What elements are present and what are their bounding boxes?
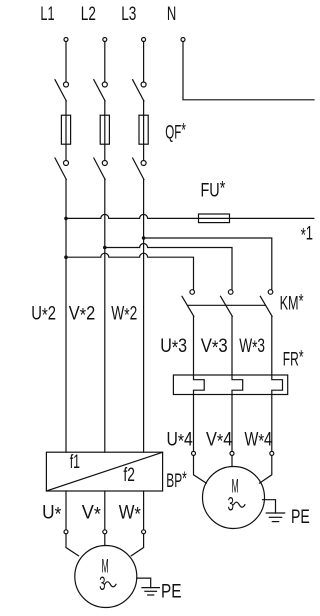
junction dot bus4 / L1 xyxy=(64,255,68,259)
motor M2 3~ mark xyxy=(228,494,245,516)
svg-text:3: 3 xyxy=(228,494,234,516)
terminal L2 xyxy=(103,38,107,42)
svg-text:U*: U* xyxy=(42,501,62,525)
breaker QF* pole 3 upper contact xyxy=(133,80,147,116)
svg-text:L3: L3 xyxy=(121,3,136,25)
wire box BP to terminal W* xyxy=(143,491,145,530)
wire V*2 feeder (L2 phase down to box BP) xyxy=(104,180,106,453)
wire terminal U*4 to motor M2 xyxy=(194,456,207,484)
svg-text:PE: PE xyxy=(161,580,182,602)
svg-text:V*: V* xyxy=(82,501,102,525)
wire box BP to terminal V* xyxy=(104,491,106,530)
svg-text:N: N xyxy=(167,3,176,25)
svg-text:U*4: U*4 xyxy=(167,429,193,453)
terminal V*4 xyxy=(230,451,234,455)
fuse element pole 3 xyxy=(139,115,148,144)
svg-text:f1: f1 xyxy=(70,451,80,473)
svg-text:V*2: V*2 xyxy=(69,303,96,327)
svg-text:BP*: BP* xyxy=(166,468,187,492)
wire bus 4 (L1 to KM pole 1) with hops xyxy=(66,253,194,289)
svg-text:W*3: W*3 xyxy=(239,335,265,359)
breaker QF* pole 2 upper contact xyxy=(94,80,108,116)
wire FR to terminal V*4 xyxy=(231,395,233,452)
fuse element pole 2 xyxy=(100,115,109,144)
svg-text:V*4: V*4 xyxy=(206,429,232,453)
svg-text:KM*: KM* xyxy=(280,291,304,315)
svg-text:FR*: FR* xyxy=(283,346,304,370)
relay FR* heater element 1 xyxy=(194,375,205,395)
contactor KM* pole 1 xyxy=(182,290,195,375)
terminal U* xyxy=(64,530,68,534)
svg-text:U*2: U*2 xyxy=(31,303,56,327)
motor M1 circle xyxy=(75,546,137,608)
terminal U*4 xyxy=(192,451,196,455)
svg-text:W*: W* xyxy=(119,501,142,525)
breaker QF* pole 1 lower contact xyxy=(55,144,69,179)
svg-text:W*4: W*4 xyxy=(245,429,273,453)
svg-text:QF*: QF* xyxy=(165,120,186,144)
wire L2 to QF xyxy=(104,42,106,82)
motor M2 circle xyxy=(203,467,265,529)
svg-text:L1: L1 xyxy=(40,3,54,25)
svg-text:f2: f2 xyxy=(123,464,134,486)
fuse FU* body xyxy=(199,214,230,223)
svg-text:FU*: FU* xyxy=(201,178,226,202)
terminal L3 xyxy=(142,38,146,42)
contactor KM* linkage bar xyxy=(188,304,266,306)
wire L1 to QF xyxy=(65,42,67,82)
wire box BP to terminal U* xyxy=(65,491,67,530)
wire U*2 feeder (L1 phase down to box BP) xyxy=(65,180,67,453)
terminal N xyxy=(181,38,185,42)
wire L3 to QF xyxy=(143,42,145,82)
ground PE of motor M1 xyxy=(137,578,160,595)
svg-text:L2: L2 xyxy=(81,3,96,25)
wire terminal V*4 to motor M2 xyxy=(231,456,233,466)
wire FR to terminal U*4 xyxy=(193,395,195,452)
wire bus 2 (L3 to KM pole 3) xyxy=(144,238,272,290)
breaker QF* pole 3 lower contact xyxy=(133,144,147,179)
wire W*2 feeder (L3 phase down to box BP) xyxy=(143,180,145,453)
motor M1 3~ mark xyxy=(99,573,116,595)
wire N down and right xyxy=(183,42,314,100)
autotransformer BP* body xyxy=(46,452,162,491)
svg-text:U*3: U*3 xyxy=(160,335,187,359)
wire terminal V* to motor M1 xyxy=(104,534,106,546)
junction dot bus3 / L2 xyxy=(103,246,107,250)
relay FR* heater element 2 xyxy=(232,375,243,395)
junction dot bus1 / L1 xyxy=(64,217,68,221)
breaker QF* pole 2 lower contact xyxy=(94,144,108,179)
junction dot bus2 / L3 xyxy=(142,236,146,240)
wire terminal W* to motor M1 xyxy=(131,534,143,556)
relay FR* heater element 3 xyxy=(272,375,283,395)
terminal L1 xyxy=(64,38,68,42)
ground PE of motor M2 xyxy=(263,500,285,522)
fuse element pole 1 xyxy=(61,115,70,144)
svg-text:V*3: V*3 xyxy=(201,335,228,359)
relay FR* body xyxy=(173,375,287,395)
svg-text:W*2: W*2 xyxy=(111,303,137,327)
terminal W* xyxy=(142,530,146,534)
svg-text:PE: PE xyxy=(291,506,310,528)
wire bus 1 with crossover hops to fuse FU xyxy=(66,214,314,218)
svg-text:*1: *1 xyxy=(301,223,313,247)
breaker QF* pole 1 upper contact xyxy=(55,80,69,116)
terminal W*4 xyxy=(270,451,274,455)
wire FR to terminal W*4 xyxy=(271,395,273,452)
contactor KM* pole 3 xyxy=(260,290,273,375)
wire bus 3 (L2 to KM pole 2) with hop xyxy=(105,244,232,290)
wire terminal U* to motor M1 xyxy=(66,534,79,556)
contactor KM* pole 2 xyxy=(221,290,234,375)
terminal V* xyxy=(103,530,107,534)
wire terminal W*4 to motor M2 xyxy=(260,456,272,484)
